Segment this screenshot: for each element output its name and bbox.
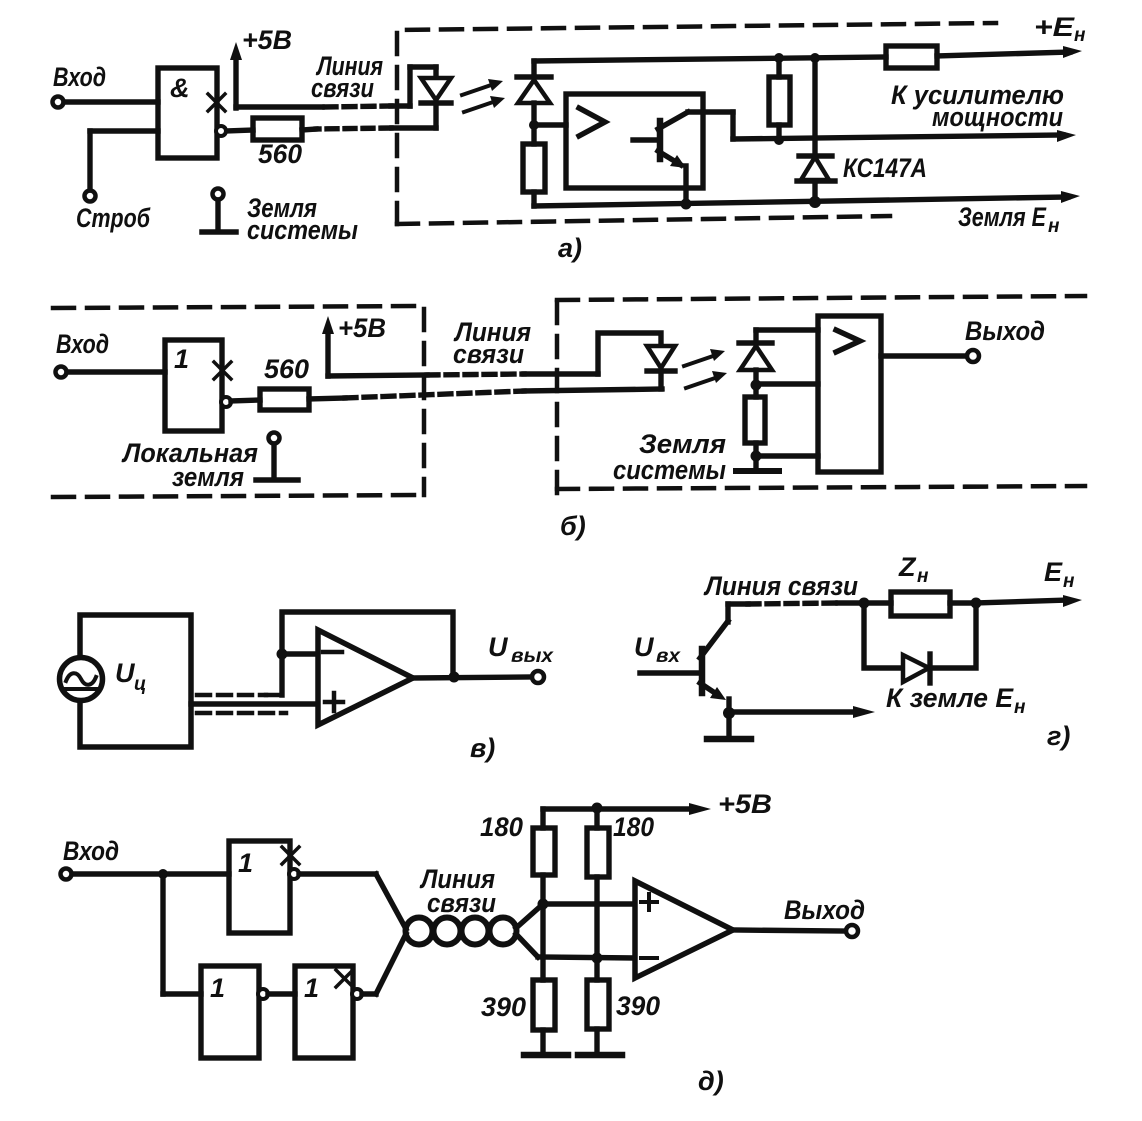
svg-text:Е: Е [1044, 557, 1063, 587]
svg-text:Строб: Строб [76, 203, 151, 233]
svg-text:вх: вх [656, 646, 682, 667]
svg-text:Вход: Вход [63, 836, 119, 866]
svg-text:КС147А: КС147А [843, 153, 927, 183]
svg-text:1: 1 [210, 973, 225, 1003]
svg-text:560: 560 [258, 139, 302, 169]
svg-text:н: н [1048, 216, 1060, 237]
svg-text:б): б) [560, 511, 586, 541]
svg-text:ц: ц [134, 674, 146, 695]
svg-text:U: U [115, 658, 136, 688]
svg-text:Вход: Вход [53, 62, 106, 92]
svg-text:+5В: +5В [242, 25, 292, 55]
svg-text:вых: вых [511, 646, 555, 667]
svg-text:К земле Е: К земле Е [886, 683, 1014, 713]
svg-text:560: 560 [264, 354, 309, 384]
svg-text:390: 390 [481, 992, 526, 1022]
svg-text:+Е: +Е [1034, 12, 1075, 42]
svg-text:+5В: +5В [338, 313, 386, 343]
svg-text:системы: системы [247, 215, 358, 245]
svg-text:н: н [917, 566, 929, 587]
svg-text:Выход: Выход [784, 895, 865, 925]
svg-text:а): а) [558, 233, 582, 263]
svg-text:н: н [1074, 25, 1086, 46]
svg-text:Линия связи: Линия связи [703, 571, 858, 601]
svg-text:390: 390 [616, 991, 660, 1021]
svg-text:180: 180 [480, 812, 523, 842]
svg-text:д): д) [698, 1066, 724, 1096]
svg-text:н: н [1014, 697, 1026, 718]
svg-text:Вход: Вход [56, 329, 109, 359]
svg-text:&: & [170, 73, 190, 103]
svg-text:земля: земля [172, 462, 244, 492]
svg-text:U: U [488, 632, 509, 662]
svg-text:Выход: Выход [965, 316, 1045, 346]
svg-text:+5В: +5В [718, 789, 772, 819]
svg-text:1: 1 [238, 848, 253, 878]
svg-text:системы: системы [613, 455, 726, 485]
svg-text:связи: связи [311, 73, 374, 103]
svg-text:мощности: мощности [932, 102, 1063, 132]
svg-text:связи: связи [453, 339, 524, 369]
svg-text:Z: Z [898, 552, 917, 582]
svg-text:1: 1 [304, 973, 319, 1003]
svg-text:U: U [634, 632, 655, 662]
svg-text:г): г) [1047, 721, 1070, 751]
svg-text:Земля Е: Земля Е [958, 202, 1047, 232]
svg-text:в): в) [470, 733, 495, 763]
svg-text:180: 180 [613, 812, 654, 842]
svg-text:н: н [1063, 571, 1075, 592]
svg-text:1: 1 [174, 344, 189, 374]
svg-text:связи: связи [427, 888, 496, 918]
